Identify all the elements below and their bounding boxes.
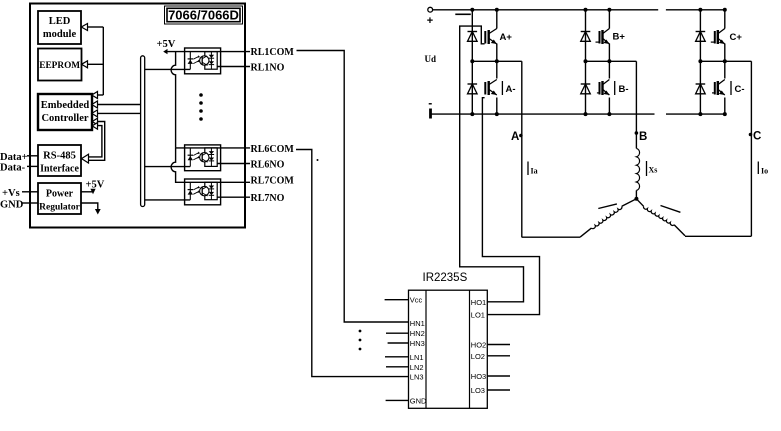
svg-text:Vcc: Vcc — [410, 296, 423, 305]
svg-text:A+: A+ — [500, 32, 513, 43]
svg-text:LN2: LN2 — [410, 363, 424, 372]
svg-text:RL6NO: RL6NO — [251, 160, 285, 171]
svg-text:HN1: HN1 — [410, 319, 425, 328]
svg-text:Ud: Ud — [425, 54, 437, 64]
svg-text:RL1NO: RL1NO — [251, 63, 285, 74]
svg-text:Data+: Data+ — [0, 152, 28, 163]
svg-text:+5V: +5V — [86, 180, 105, 191]
svg-text:B+: B+ — [613, 32, 626, 43]
svg-text:C+: C+ — [730, 32, 743, 43]
svg-text:A: A — [511, 131, 519, 143]
svg-text:C: C — [753, 131, 761, 143]
svg-text:A-: A- — [506, 84, 516, 95]
svg-text:Data-: Data- — [0, 163, 26, 174]
svg-text:EEPROM: EEPROM — [39, 61, 80, 71]
svg-text:7066/7066D: 7066/7066D — [168, 8, 239, 23]
svg-text:LO1: LO1 — [471, 311, 485, 320]
svg-text:HN3: HN3 — [410, 339, 425, 348]
svg-text:+Vs: +Vs — [2, 188, 20, 199]
svg-text:B: B — [639, 131, 647, 143]
svg-text:Xs: Xs — [649, 166, 658, 175]
svg-text:RL7COM: RL7COM — [251, 176, 295, 187]
svg-text:IR2235S: IR2235S — [423, 272, 468, 284]
svg-text:LO2: LO2 — [471, 352, 485, 361]
svg-text:module: module — [43, 29, 77, 40]
svg-text:RS-485: RS-485 — [43, 151, 76, 162]
svg-text:+5V: +5V — [157, 39, 176, 50]
svg-text:HO2: HO2 — [471, 341, 486, 350]
svg-text:LN1: LN1 — [410, 353, 424, 362]
svg-text:Controller: Controller — [41, 113, 88, 124]
svg-text:Regulator: Regulator — [39, 203, 80, 213]
svg-text:HN2: HN2 — [410, 329, 425, 338]
svg-text:+: + — [427, 15, 433, 27]
svg-text:Power: Power — [46, 189, 74, 200]
svg-text:HO1: HO1 — [471, 298, 486, 307]
svg-text:GND: GND — [410, 396, 427, 405]
svg-text:Embedded: Embedded — [41, 100, 90, 111]
svg-text:GND: GND — [0, 200, 24, 211]
svg-text:B-: B- — [619, 84, 629, 95]
svg-text:HO3: HO3 — [471, 372, 486, 381]
svg-text:Ia: Ia — [531, 167, 538, 176]
svg-text:LN3: LN3 — [410, 373, 424, 382]
svg-text:RL1COM: RL1COM — [251, 47, 295, 58]
svg-text:C-: C- — [735, 84, 745, 95]
svg-text:-: - — [428, 96, 432, 110]
svg-text:RL6COM: RL6COM — [251, 144, 295, 155]
svg-text:LO3: LO3 — [471, 386, 485, 395]
svg-text:RL7NO: RL7NO — [251, 193, 285, 204]
svg-text:Interface: Interface — [40, 164, 79, 175]
svg-text:Io: Io — [761, 167, 768, 176]
svg-text:LED: LED — [49, 16, 71, 27]
